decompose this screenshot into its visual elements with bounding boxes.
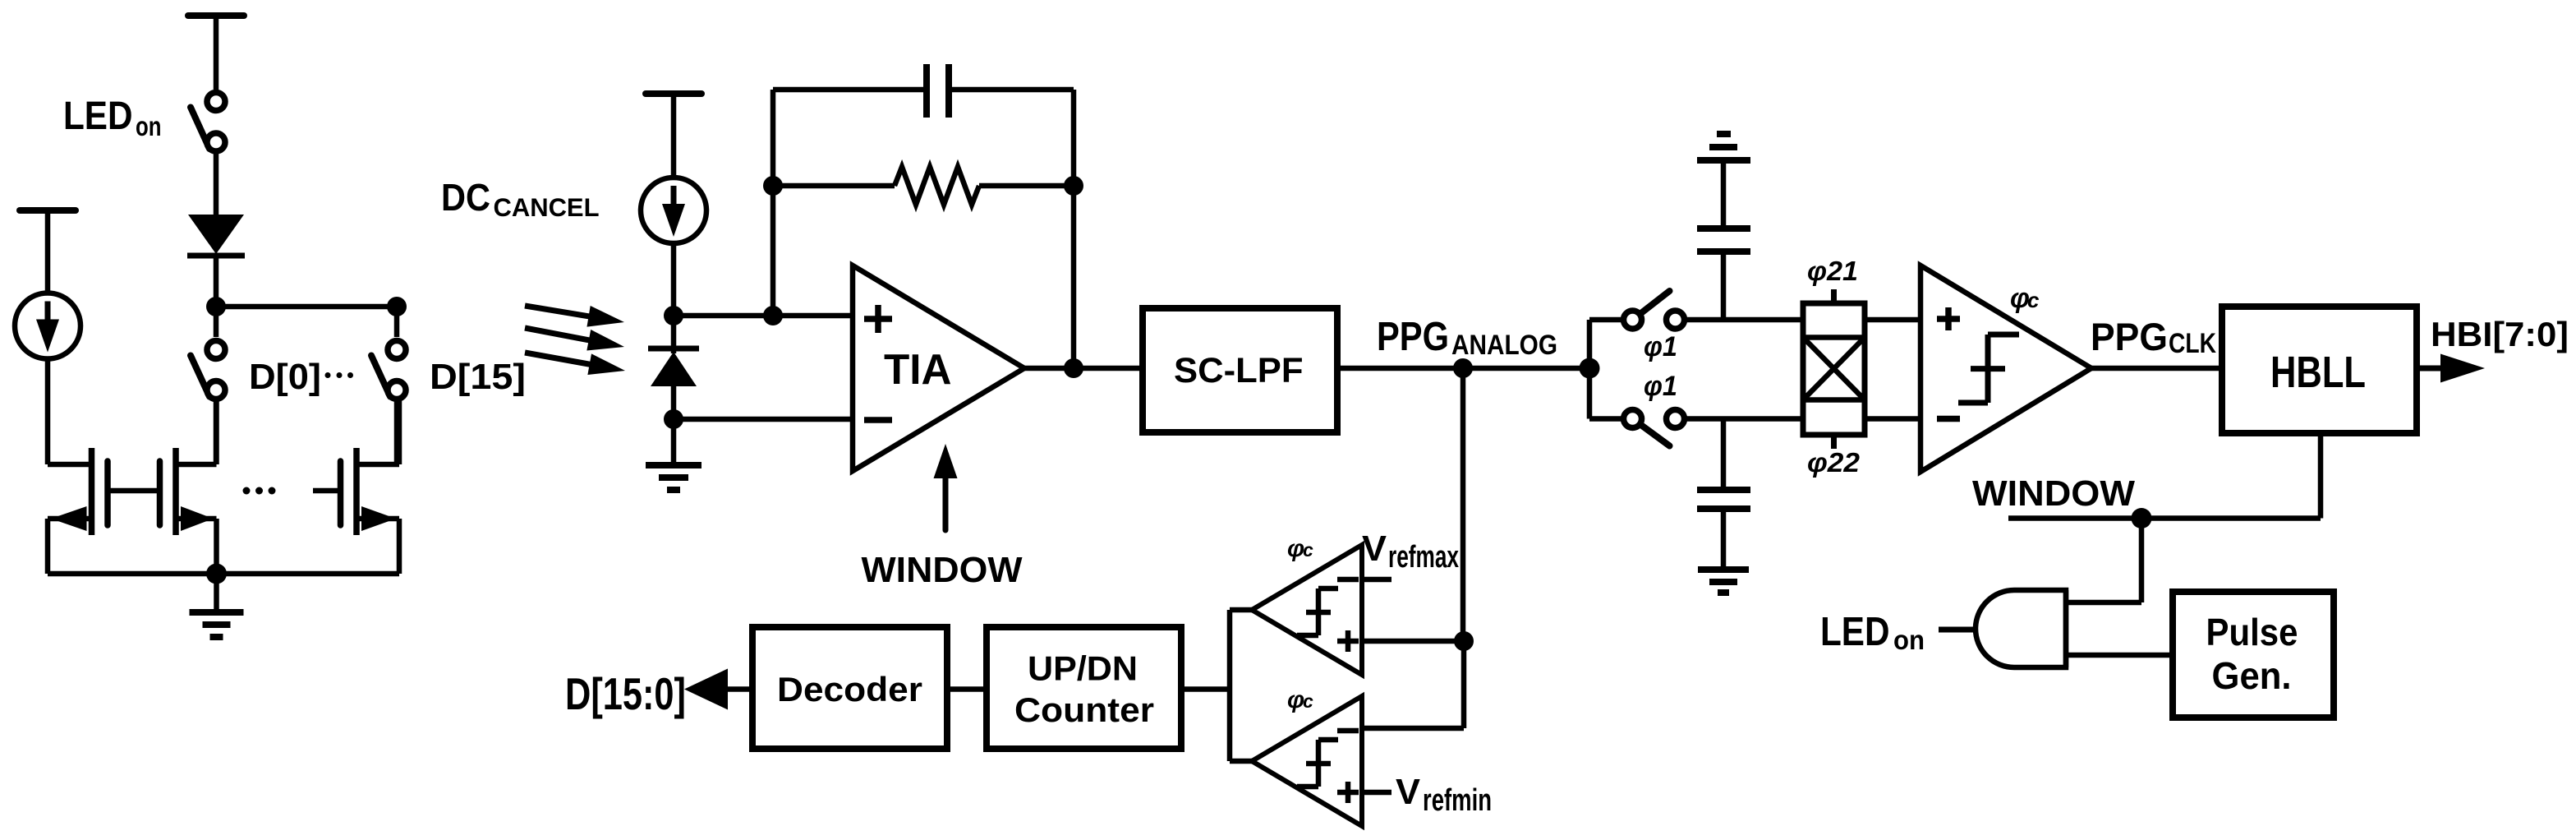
svg-text:c: c — [2027, 288, 2040, 312]
svg-text:D[15]: D[15] — [430, 357, 526, 397]
svg-text:V: V — [1396, 772, 1421, 812]
svg-text:φ: φ — [1287, 535, 1304, 562]
svg-text:CLK: CLK — [2169, 328, 2216, 359]
svg-text:Pulse: Pulse — [2206, 611, 2298, 653]
svg-text:TIA: TIA — [884, 346, 952, 394]
svg-text:D[15:0]: D[15:0] — [565, 668, 686, 719]
svg-text:D[0]: D[0] — [249, 357, 321, 397]
svg-text:φ1: φ1 — [1644, 371, 1677, 402]
svg-text:HBLL: HBLL — [2270, 348, 2366, 397]
svg-text:Gen.: Gen. — [2212, 654, 2292, 697]
svg-text:c: c — [1303, 690, 1313, 712]
svg-text:on: on — [136, 111, 162, 141]
svg-text:PPG: PPG — [2091, 315, 2168, 358]
svg-text:φ: φ — [1287, 686, 1304, 713]
svg-text:LED: LED — [63, 95, 133, 138]
svg-text:φ22: φ22 — [1807, 447, 1861, 478]
svg-text:Decoder: Decoder — [777, 670, 922, 708]
svg-text:CANCEL: CANCEL — [494, 192, 600, 222]
svg-text:PPG: PPG — [1377, 315, 1449, 359]
svg-text:V: V — [1362, 528, 1387, 569]
svg-text:φ1: φ1 — [1644, 331, 1677, 362]
svg-text:on: on — [1893, 625, 1925, 655]
svg-text:HBI[7:0]: HBI[7:0] — [2431, 315, 2569, 353]
svg-text:WINDOW: WINDOW — [862, 550, 1023, 590]
svg-text:UP/DN: UP/DN — [1028, 649, 1138, 688]
svg-text:refmax: refmax — [1388, 540, 1459, 575]
svg-text:WINDOW: WINDOW — [1972, 473, 2135, 514]
svg-text:LED: LED — [1820, 610, 1890, 654]
svg-text:Counter: Counter — [1014, 690, 1154, 729]
svg-text:ANALOG: ANALOG — [1451, 330, 1557, 361]
svg-text:SC-LPF: SC-LPF — [1174, 351, 1304, 390]
svg-text:refmin: refmin — [1423, 783, 1492, 818]
svg-text:φ21: φ21 — [1807, 256, 1858, 286]
svg-text:DC: DC — [441, 176, 490, 219]
svg-text:c: c — [1303, 539, 1313, 561]
